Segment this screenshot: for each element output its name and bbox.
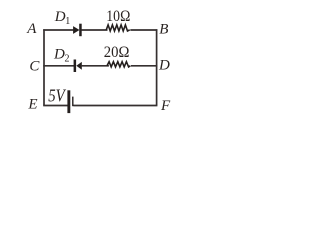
wire C to D2 <box>43 65 74 67</box>
svg-text:C: C <box>29 59 40 75</box>
svg-text:D: D <box>53 47 65 63</box>
svg-text:D: D <box>54 9 66 25</box>
svg-text:2: 2 <box>65 54 70 65</box>
svg-text:5V: 5V <box>48 86 66 106</box>
svg-text:10Ω: 10Ω <box>106 8 130 25</box>
wire D2 to R2 <box>82 65 109 67</box>
wire left rail A-C-E <box>43 29 45 105</box>
battery long plate <box>67 90 70 113</box>
svg-text:1: 1 <box>65 16 70 27</box>
wire battery to F <box>73 105 157 107</box>
wire R1 to B <box>130 29 157 31</box>
wire right rail B-D-F <box>156 29 158 105</box>
wire A to D1 <box>43 29 73 31</box>
resistor R1 10ohm zigzag <box>106 25 130 31</box>
wire D1 to R1 <box>82 29 108 31</box>
svg-text:B: B <box>159 21 168 37</box>
diode D2 <box>74 60 82 73</box>
wire E to battery <box>43 105 68 107</box>
battery short plate <box>72 97 73 107</box>
svg-text:F: F <box>160 98 171 114</box>
diode D1 <box>73 24 82 37</box>
resistor R2 20ohm zigzag <box>107 62 130 67</box>
svg-text:E: E <box>27 96 37 112</box>
wire R2 to D <box>131 65 158 67</box>
svg-text:A: A <box>26 21 37 37</box>
svg-text:D: D <box>158 58 170 74</box>
svg-text:20Ω: 20Ω <box>104 44 130 61</box>
